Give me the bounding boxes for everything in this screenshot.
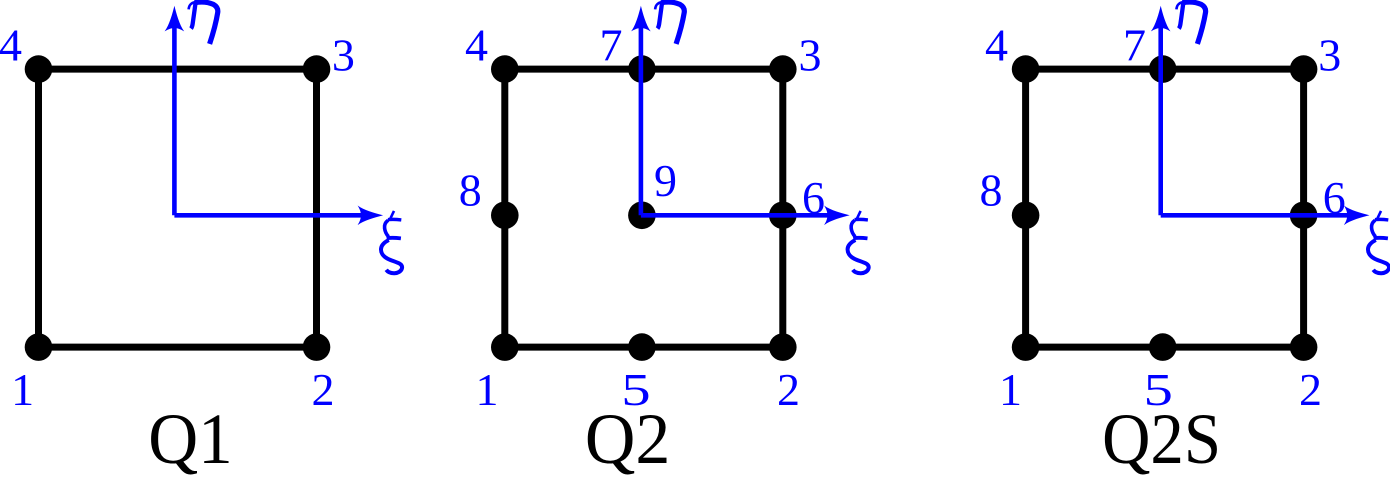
node 1 (Q1 bottom-left corner): [25, 333, 53, 361]
svg-text:4: 4: [465, 19, 488, 70]
node 3 (Q2S top-right corner): [1290, 55, 1318, 83]
node 7 (Q2 top mid-side): [628, 55, 656, 83]
Q2 node label 5: [621, 365, 650, 415]
svg-text:1: 1: [999, 364, 1022, 415]
svg-text:6: 6: [802, 172, 825, 223]
Q2 square outline: [505, 69, 783, 347]
Q2 eta axis arrowhead: [631, 6, 651, 32]
node 5 (Q2 bottom mid-side): [628, 333, 656, 361]
node 2 (Q1 bottom-right corner): [303, 333, 331, 361]
svg-text:2: 2: [312, 364, 335, 415]
Q1 xi axis label: [381, 211, 402, 273]
node 1 (Q2 bottom-left corner): [491, 333, 519, 361]
Q1 eta axis label: [189, 2, 218, 44]
node 2 (Q2 bottom-right corner): [769, 333, 797, 361]
Q1 eta axis arrowhead: [165, 6, 185, 32]
Q2 eta axis shaft: [639, 26, 644, 216]
svg-text:6: 6: [1323, 172, 1346, 223]
Q1 eta axis shaft: [172, 26, 177, 216]
Q2S xi axis shaft: [1161, 213, 1350, 218]
svg-text:7: 7: [600, 19, 623, 70]
Q1 square outline: [39, 69, 317, 347]
Q2S square outline: [1026, 69, 1304, 347]
svg-text:1: 1: [11, 364, 34, 415]
Q2 xi axis shaft: [641, 213, 830, 218]
svg-text:Q2: Q2: [585, 399, 671, 479]
node 9 (Q2 center): [628, 202, 656, 230]
node 3 (Q2 top-right corner): [769, 55, 797, 83]
Q2S xi axis label: [1368, 211, 1389, 273]
node 7 (Q2S top mid-side): [1149, 55, 1177, 83]
node 1 (Q2S bottom-left corner): [1012, 333, 1040, 361]
Q1 xi axis shaft: [174, 213, 363, 218]
svg-text:8: 8: [980, 165, 1003, 216]
svg-text:4: 4: [985, 19, 1008, 70]
node 2 (Q2S bottom-right corner): [1290, 333, 1318, 361]
node 5 (Q2S bottom mid-side): [1149, 333, 1177, 361]
Q1 xi axis arrowhead: [358, 206, 384, 226]
element Q2S: [980, 2, 1390, 479]
element Q2: [459, 2, 869, 479]
svg-text:3: 3: [1318, 30, 1341, 81]
node 8 (Q2 left mid-side): [491, 202, 519, 230]
node 6 (Q2 right mid-side): [769, 202, 797, 230]
svg-text:8: 8: [459, 165, 482, 216]
element Q1: [0, 2, 402, 479]
svg-text:9: 9: [654, 155, 677, 206]
Q2 xi axis arrowhead: [824, 206, 850, 226]
svg-text:4: 4: [0, 19, 22, 70]
Q2S node label 5: [1143, 365, 1172, 415]
node 8 (Q2S left mid-side): [1012, 202, 1040, 230]
node 6 (Q2S right mid-side): [1290, 202, 1318, 230]
svg-text:7: 7: [1123, 19, 1146, 70]
svg-text:1: 1: [476, 364, 499, 415]
Q2 eta axis label: [655, 2, 684, 44]
svg-text:Q2S: Q2S: [1102, 399, 1221, 479]
Q2S eta axis arrowhead: [1151, 6, 1171, 32]
node 3 (Q1 top-right corner): [303, 55, 331, 83]
svg-text:3: 3: [332, 30, 355, 81]
node 4 (Q2S top-left corner): [1012, 55, 1040, 83]
Q2S eta axis label: [1176, 2, 1205, 44]
svg-text:Q1: Q1: [148, 399, 233, 479]
node 4 (Q2 top-left corner): [491, 55, 519, 83]
Q2S xi axis arrowhead: [1344, 206, 1370, 226]
node 4 (Q1 top-left corner): [25, 55, 53, 83]
svg-text:2: 2: [777, 364, 800, 415]
svg-text:3: 3: [799, 30, 822, 81]
Q2 xi axis label: [848, 211, 869, 273]
svg-text:2: 2: [1299, 364, 1322, 415]
Q2S eta axis shaft: [1158, 26, 1163, 216]
